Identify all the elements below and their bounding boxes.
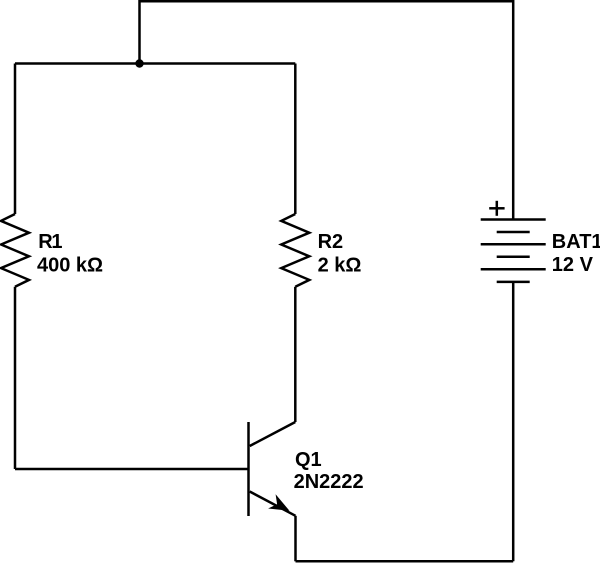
wire: bottom rail to battery negative — [296, 560, 514, 563]
wire: middle vertical from top row down to R2 — [294, 64, 297, 215]
resistor R1 — [1, 214, 29, 287]
svg-text:2N2222: 2N2222 — [294, 471, 364, 493]
wire: R2 bottom down to Q1 collector — [294, 287, 297, 422]
transistor Q1 — [249, 422, 296, 516]
resistor R2 — [281, 214, 309, 287]
svg-text:R1: R1 — [38, 231, 62, 253]
svg-text:12 V: 12 V — [552, 254, 594, 276]
battery BAT1 — [481, 220, 546, 282]
svg-text:R2: R2 — [318, 231, 344, 253]
battery plus sign — [489, 201, 504, 216]
wire: left vertical from node row down to R1 — [14, 64, 17, 215]
node: junction dot — [135, 59, 143, 67]
svg-text:400 kΩ: 400 kΩ — [37, 255, 103, 277]
svg-text:2 kΩ: 2 kΩ — [318, 255, 362, 277]
wire: horizontal from R1 top to R2 top — [15, 62, 295, 65]
wire: R1 bottom down left rail — [14, 287, 17, 469]
wire: battery negative down right rail — [512, 282, 515, 561]
wire: junction up, across top, down to battery positive — [140, 1, 514, 219]
wire: base wire from left rail to Q1 base — [15, 468, 249, 471]
svg-text:Q1: Q1 — [295, 449, 322, 471]
svg-text:BAT1: BAT1 — [552, 231, 600, 253]
wire: emitter down to bottom rail — [294, 516, 297, 562]
